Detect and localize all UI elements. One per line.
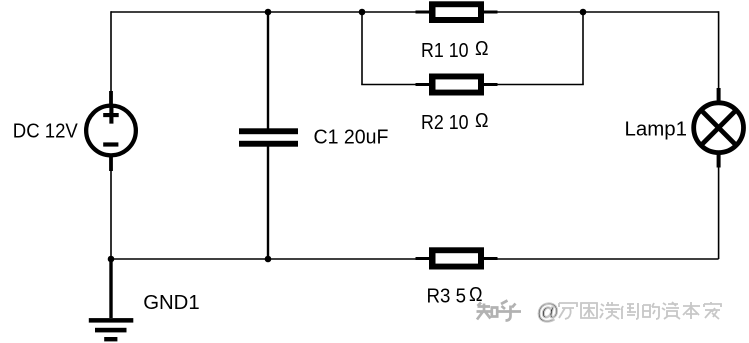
- label C1 20uF: [314, 127, 389, 149]
- watermark 知乎 @穷困潦倒的资本家 (drawn strokes, embossed gray): [477, 299, 722, 324]
- char 困: [581, 303, 597, 318]
- char 倒: [621, 303, 638, 319]
- wire parallel-branch horizontal (R2 branch): [361, 84, 584, 86]
- char 资: [662, 302, 680, 319]
- wire capacitor bottom lead: [267, 147, 269, 260]
- junction dot bottom at ground: [108, 256, 115, 263]
- svg-text:Lamp1: Lamp1: [625, 119, 688, 141]
- wire left vertical lower (source bottom to bottom node): [110, 171, 112, 259]
- junction dot bottom at capacitor: [265, 256, 272, 263]
- svg-text:R1 10: R1 10: [421, 39, 469, 62]
- wire right vertical (lamp top lead wire): [718, 11, 720, 88]
- svg-text:Ω: Ω: [475, 38, 489, 60]
- voltage source V1 (DC 12V): [86, 91, 136, 171]
- wire bottom (node between source, C1, R3, lamp): [111, 258, 719, 260]
- wire right vertical lower (lamp bottom to bottom node): [718, 168, 720, 260]
- wire left vertical (source top lead wire): [110, 11, 112, 91]
- svg-text:R3 5: R3 5: [427, 285, 467, 308]
- junction dot top at capacitor: [265, 9, 272, 16]
- resistor R2: [416, 74, 498, 96]
- svg-text:DC 12V: DC 12V: [13, 121, 79, 143]
- wire parallel-branch right vertical: [582, 12, 584, 85]
- svg-text:GND1: GND1: [143, 291, 200, 314]
- label DC 12V: [13, 121, 79, 143]
- char 家: [704, 302, 721, 319]
- label Lamp1: [625, 119, 688, 141]
- capacitor C1: [239, 128, 298, 146]
- char @: [537, 299, 560, 324]
- svg-text:@: @: [537, 299, 560, 324]
- resistor R3: [416, 247, 498, 269]
- char 本: [683, 302, 700, 319]
- junction dot top at branch left: [359, 9, 366, 16]
- resistor R1: [416, 1, 498, 23]
- svg-text:R2 10: R2 10: [421, 111, 469, 134]
- label R3 5 Ω: [427, 284, 483, 308]
- label GND1: [143, 291, 200, 314]
- char 潦: [600, 302, 620, 319]
- label R2 10 Ω: [421, 110, 489, 134]
- char 的: [643, 303, 659, 319]
- ground GND1: [89, 259, 134, 341]
- wire top (node between source, C1, R1 bank, lamp): [111, 11, 719, 13]
- wire capacitor top lead: [267, 12, 269, 129]
- svg-text:Ω: Ω: [475, 110, 489, 132]
- char 知 (logo, solid gray): [477, 303, 498, 320]
- junction dot top at branch right: [580, 9, 587, 16]
- lamp Lamp1: [694, 88, 744, 168]
- char 穷: [559, 303, 577, 319]
- wire parallel-branch left vertical: [361, 12, 363, 85]
- label R1 10 Ω: [421, 38, 489, 62]
- char 乎 (logo, solid gray): [498, 301, 521, 321]
- svg-text:C1 20uF: C1 20uF: [314, 127, 389, 149]
